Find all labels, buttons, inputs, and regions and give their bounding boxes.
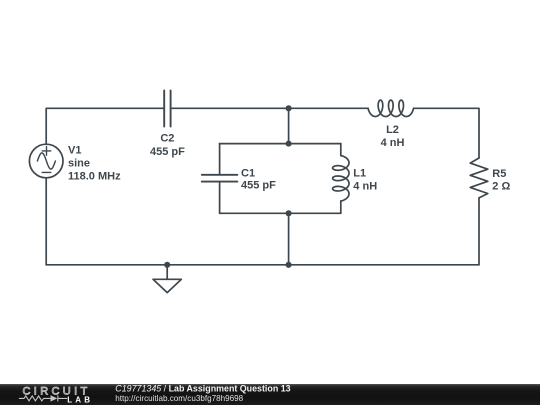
svg-text:118.0 MHz: 118.0 MHz bbox=[68, 170, 121, 182]
svg-text:4 nH: 4 nH bbox=[353, 180, 377, 192]
capacitor C1 plates bbox=[202, 175, 238, 182]
V1 minus sign bbox=[42, 171, 51, 173]
logo diode triangle bbox=[51, 395, 58, 401]
wire right: R5 bottom terminal down to bottom rail bbox=[478, 198, 480, 265]
wire tank left branch lower bbox=[219, 182, 221, 214]
svg-text:sine: sine bbox=[68, 157, 90, 169]
inductor L1 coil bbox=[333, 156, 349, 201]
svg-text:C2: C2 bbox=[160, 133, 174, 145]
voltage source V1 body bbox=[29, 144, 63, 178]
V1 sine waveform bbox=[37, 153, 55, 169]
wire top-middle: C2 right plate to L2 left terminal bbox=[171, 107, 369, 109]
svg-text:LAB: LAB bbox=[67, 395, 93, 404]
svg-text:4 nH: 4 nH bbox=[381, 137, 405, 149]
junction node ground bbox=[164, 262, 170, 268]
wire bottom rail bbox=[46, 264, 479, 266]
junction node tank bottom bbox=[286, 210, 292, 216]
wire left: V1 bottom terminal down to bottom rail bbox=[45, 178, 47, 265]
wire stub: tank bottom down to bottom rail node bbox=[288, 213, 290, 264]
footer bar bbox=[0, 384, 540, 405]
inductor L2 coil bbox=[368, 100, 413, 116]
ground symbol bbox=[153, 265, 181, 293]
wire tank bottom edge bbox=[220, 212, 341, 214]
svg-text:L2: L2 bbox=[386, 124, 399, 136]
junction node top rail bbox=[286, 105, 292, 111]
svg-text:455 pF: 455 pF bbox=[241, 180, 276, 192]
svg-text:C1: C1 bbox=[241, 167, 255, 179]
logo resistor-diode line bbox=[19, 395, 67, 401]
junction node tank top bbox=[286, 141, 292, 147]
resistor R5 zigzag bbox=[470, 158, 488, 198]
svg-text:http://circuitlab.com/cu3bfg78: http://circuitlab.com/cu3bfg78h9698 bbox=[115, 394, 243, 403]
junction node bottom rail bbox=[286, 262, 292, 268]
wire tank right branch lower bbox=[340, 201, 342, 213]
svg-text:C19771345 / Lab Assignment Que: C19771345 / Lab Assignment Question 13 bbox=[115, 383, 290, 393]
svg-text:455 pF: 455 pF bbox=[150, 146, 185, 158]
wire top-left: V1 top to C2 left plate bbox=[46, 108, 164, 144]
V1 plus sign bbox=[42, 147, 51, 156]
wire tank left branch upper bbox=[219, 144, 221, 175]
capacitor C2 plates bbox=[164, 91, 170, 127]
svg-text:V1: V1 bbox=[68, 144, 81, 156]
wire tank right branch upper bbox=[340, 144, 342, 156]
svg-text:R5: R5 bbox=[492, 168, 506, 180]
wire stub: top rail node down to tank top bbox=[288, 108, 290, 143]
wire top-right: L2 right terminal to corner, down to R5 top bbox=[414, 108, 480, 158]
svg-text:L1: L1 bbox=[353, 168, 366, 180]
wire tank top edge bbox=[220, 143, 341, 145]
svg-text:2 Ω: 2 Ω bbox=[492, 181, 510, 193]
